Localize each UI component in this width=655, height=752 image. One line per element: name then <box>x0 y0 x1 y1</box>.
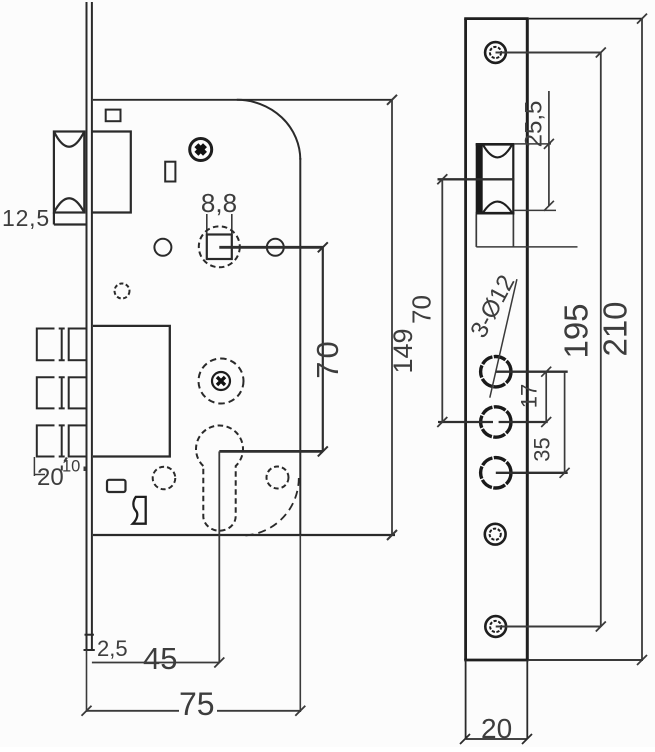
svg-text:12,5: 12,5 <box>2 205 50 231</box>
svg-text:70: 70 <box>310 338 345 378</box>
svg-text:17: 17 <box>517 384 542 408</box>
svg-text:20: 20 <box>481 713 512 744</box>
svg-text:149: 149 <box>388 328 418 373</box>
svg-text:20: 20 <box>37 464 64 491</box>
svg-text:45: 45 <box>143 641 177 676</box>
svg-text:75: 75 <box>179 686 215 722</box>
svg-text:210: 210 <box>597 301 634 356</box>
svg-text:195: 195 <box>558 303 595 358</box>
svg-text:10: 10 <box>62 458 80 476</box>
svg-text:25,5: 25,5 <box>521 101 548 148</box>
svg-text:70: 70 <box>407 295 437 324</box>
svg-text:2,5: 2,5 <box>97 636 128 661</box>
svg-text:35: 35 <box>530 437 555 461</box>
svg-text:8,8: 8,8 <box>201 188 237 218</box>
